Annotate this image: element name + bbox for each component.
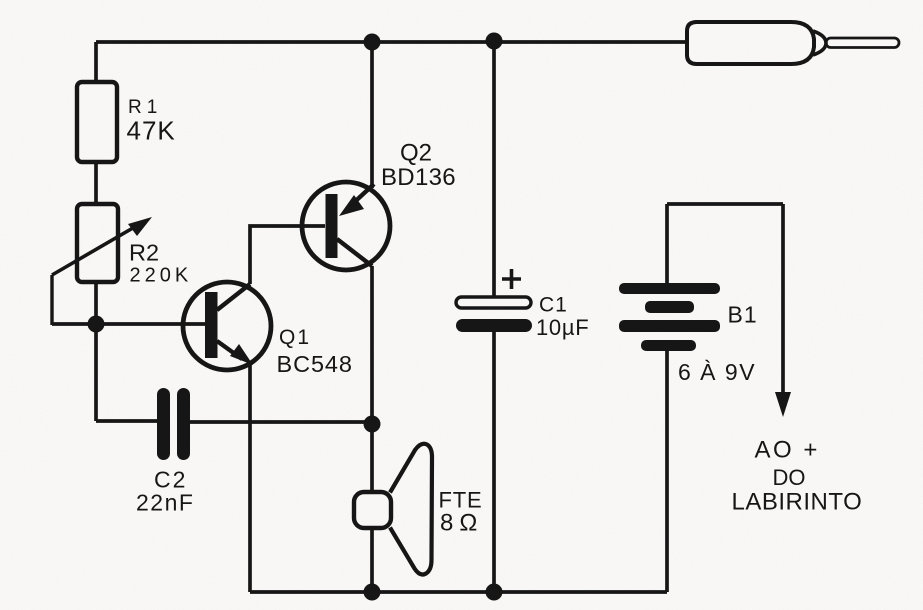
wire Q2 collector drop <box>370 266 374 492</box>
svg-text:Q2: Q2 <box>400 140 432 167</box>
resistor R2 (trimmer) <box>77 204 118 282</box>
label Q1 value <box>277 326 353 377</box>
svg-text:220K: 220K <box>130 265 193 287</box>
label C1 value <box>536 294 589 341</box>
svg-text:BC548: BC548 <box>277 351 353 377</box>
node at top rail / Q2 emitter riser <box>364 34 381 51</box>
svg-text:BD136: BD136 <box>381 164 456 191</box>
svg-text:47K: 47K <box>127 116 176 146</box>
wire C2 left lead <box>96 419 158 423</box>
svg-text:DO: DO <box>773 465 806 490</box>
node speaker junction <box>364 416 381 433</box>
R2 wiper arrow <box>52 217 152 325</box>
wire output arrow to labyrinth <box>775 204 791 417</box>
battery B1 <box>619 204 783 592</box>
label B1 value <box>678 302 758 386</box>
wire R1 to R2 <box>94 162 98 204</box>
capacitor C1 <box>456 41 532 592</box>
wire R2 to node <box>94 282 98 325</box>
svg-text:B1: B1 <box>728 302 758 328</box>
wire Q1 emitter drop <box>248 364 252 592</box>
svg-text:AO +: AO + <box>755 437 820 464</box>
svg-text:R2: R2 <box>129 240 159 266</box>
wire left drop to R1 <box>94 42 98 82</box>
wire top rail <box>96 40 686 44</box>
label R2 value <box>129 240 192 287</box>
svg-text:C1: C1 <box>539 294 568 317</box>
wire Q1 collector riser <box>250 226 325 284</box>
svg-text:8Ω: 8Ω <box>440 510 483 537</box>
svg-text:10µF: 10µF <box>536 315 589 340</box>
probe tip connector <box>687 22 899 64</box>
resistor R1 <box>77 82 117 162</box>
label FTE value <box>439 488 484 537</box>
transistor Q2 <box>302 182 390 270</box>
node bottom rail / C1 <box>486 584 503 601</box>
wire speaker bottom lead <box>370 528 374 592</box>
wire C2 right lead to speaker line <box>190 420 372 424</box>
svg-text:LABIRINTO: LABIRINTO <box>732 489 863 516</box>
wire base of Q1 <box>52 322 205 326</box>
node at top rail / C1 lead <box>486 33 503 50</box>
wire Q2 emitter riser <box>370 42 374 188</box>
label Q2 value <box>381 140 456 192</box>
label output text <box>732 437 863 516</box>
label C2 value <box>136 467 194 516</box>
wire bottom rail <box>250 590 667 594</box>
speaker FTE <box>354 444 432 575</box>
transistor Q1 <box>183 282 271 370</box>
node base junction <box>88 316 105 333</box>
label R1 value <box>127 97 176 146</box>
svg-text:Q1: Q1 <box>279 326 311 349</box>
svg-text:22nF: 22nF <box>136 490 194 516</box>
capacitor C2 <box>157 388 190 460</box>
wire node down to C2 <box>94 324 98 421</box>
node bottom rail / speaker <box>364 584 381 601</box>
svg-text:6 À 9V: 6 À 9V <box>678 359 756 385</box>
